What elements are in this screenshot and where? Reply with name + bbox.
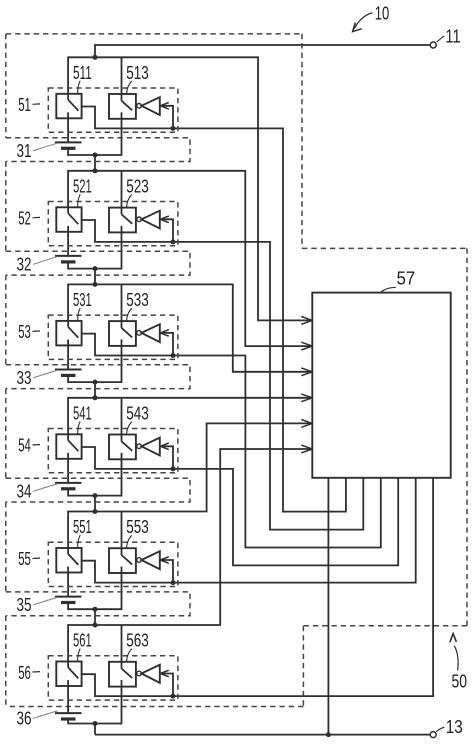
dashed box: battery unit 35 [6,592,190,616]
label 33 with leader [17,367,58,388]
svg-text:32: 32 [17,253,32,274]
dashed box: battery unit 33 [6,365,190,389]
wire: series link battery 33 to next cell top [94,382,96,398]
battery cell 32 [55,232,122,269]
wire: series link battery 32 to next cell top [94,269,96,285]
battery cell 34 [55,459,122,496]
node: junction on battery 36 negative wire [93,721,98,726]
switch 543 (bypass switch, box with blade) [109,435,136,460]
svg-text:511: 511 [73,62,92,83]
svg-text:51: 51 [18,94,31,115]
svg-text:553: 553 [126,516,149,537]
svg-text:561: 561 [73,630,92,651]
node: junction on cell 53 top line [93,282,98,287]
label 53 with leader dash [18,321,40,342]
dashed box: switching unit 53 [48,315,178,359]
wire: series link battery 31 to next cell top [94,155,96,171]
driver inverter bubble at 563 control input [137,671,142,676]
dashed box: switching unit 52 [48,202,178,246]
switch 563 (bypass switch, box with blade) [109,662,136,687]
node: junction on cell 54 top line [93,395,98,400]
dashed box: switching unit 56 [48,656,178,700]
svg-text:55: 55 [18,548,31,569]
dashed box: switching unit 51 [48,88,178,132]
wire: cell 54 control line loop to controller 57 bottom pin [82,447,399,565]
label 50 with curved arrow [450,634,467,692]
label 521 with leader [73,175,92,207]
wire: top node branch into switch 563 [121,625,123,662]
switch 523 (bypass switch, box with blade) [109,208,136,233]
label 31 with leader [17,140,58,161]
wire: bottom negative rail [95,734,430,736]
dashed box: battery unit 34 [6,478,190,502]
label 35 with leader [17,594,58,615]
svg-text:521: 521 [73,175,92,196]
battery cell 33 [55,345,122,382]
wire: top node branch into switch 553 [121,512,123,549]
wire: control feed arrow into driver of 563 [160,670,173,696]
wire: cell 56 control line loop to controller 57 bottom pin [82,478,434,696]
label 55 with leader dash [18,548,40,569]
svg-text:531: 531 [73,289,92,310]
dashed box: switching unit 54 [48,429,178,473]
label 513 with leader [126,62,149,94]
driver inverter bubble at 533 control input [137,331,142,336]
wire: control feed arrow into driver of 543 [160,443,173,469]
switch 531 (series switch, box with blade) [56,321,81,346]
label 34 with leader [17,481,58,502]
svg-text:35: 35 [17,594,32,615]
label 11 with leader tick [437,26,461,47]
label 13 with leader [436,716,462,737]
label 10 with curved arrow [353,2,390,31]
label 561 with leader [73,630,92,662]
label 523 with leader [126,175,149,207]
wire: cell 54 top node to controller input arrow [68,394,312,434]
battery cell 36 [55,686,122,724]
node: junction on cell 55 top line [93,509,98,514]
svg-text:54: 54 [18,435,31,456]
label 32 with leader [17,253,58,274]
switch 513 (bypass switch, box with blade) [109,94,136,119]
node: junction on battery 33 negative wire [93,380,98,385]
label 56 with leader dash [18,662,40,683]
label 533 with leader [126,289,149,321]
label 553 with leader [126,516,149,548]
svg-text:57: 57 [397,267,416,288]
wire: controller common line to bottom rail [327,478,329,735]
switch 521 (series switch, box with blade) [56,207,81,232]
node: junction on cell 52 top line [93,168,98,173]
wire: control feed arrow into driver of 553 [160,557,173,583]
wire: cell 51 control line loop to controller 57 bottom pin [82,107,346,512]
driver triangle (buffer) for switch 563 [141,665,159,683]
svg-text:513: 513 [126,62,149,83]
terminal 11 open circle [430,42,436,48]
svg-text:551: 551 [73,516,92,537]
wire: top node branch into switch 533 [121,284,123,321]
wire: cell 51 top node to controller input arrow [68,57,312,324]
driver inverter bubble at 523 control input [137,217,142,222]
switch 533 (bypass switch, box with blade) [109,321,136,346]
svg-text:52: 52 [18,208,31,229]
wire: cell 55 control line loop to controller 57 bottom pin [82,478,416,583]
driver triangle (buffer) for switch 523 [141,211,159,229]
label 563 with leader [126,630,149,662]
svg-text:34: 34 [17,481,32,502]
label 36 with leader [17,708,58,729]
battery cell 35 [55,573,122,610]
svg-text:541: 541 [73,402,92,423]
driver inverter bubble at 553 control input [137,558,142,563]
wire: series link battery 35 to next cell top [94,609,96,625]
node: junction of driver feed and control line (cell 51) [171,126,176,131]
svg-text:36: 36 [17,708,32,729]
controller box 57 [312,293,450,478]
label 543 with leader [126,402,149,434]
dashed box: switching unit 55 [48,542,178,586]
svg-text:33: 33 [17,367,32,388]
wire: battery 36 negative down to bottom rail [94,724,96,735]
svg-text:10: 10 [375,2,390,23]
driver triangle (buffer) for switch 533 [141,324,159,342]
battery cell 31 [55,118,122,155]
svg-text:543: 543 [126,402,149,423]
node: junction of driver feed and control line (cell 56) [171,694,176,699]
node: junction on battery 31 negative wire [93,153,98,158]
label 551 with leader [73,516,92,548]
svg-text:563: 563 [126,630,149,651]
node: junction of driver feed and control line (cell 52) [171,239,176,244]
label 531 with leader [73,289,92,321]
driver triangle (buffer) for switch 543 [141,438,159,456]
wire: top node branch into switch 523 [121,171,123,208]
svg-text:533: 533 [126,289,149,310]
svg-text:31: 31 [17,140,32,161]
driver triangle (buffer) for switch 513 [141,97,159,115]
node: junction of driver feed and control line (cell 53) [171,353,176,358]
label 541 with leader [73,402,92,434]
wire: cell 53 control line loop to controller 57 bottom pin [82,334,381,548]
node: junction on cell 51 top line [93,55,98,60]
switch 561 (series switch, box with blade) [56,662,81,687]
svg-text:50: 50 [452,671,468,692]
label 54 with leader dash [18,435,40,456]
node: junction of driver feed and control line (cell 54) [171,466,176,471]
wire: control feed arrow into driver of 533 [160,330,173,356]
wire: cell 56 top node to controller input arrow [68,445,312,661]
switch 541 (series switch, box with blade) [56,434,81,459]
label 511 with leader [73,62,92,94]
switch 553 (bypass switch, box with blade) [109,548,136,573]
node: junction of common line on bottom rail [326,732,331,737]
svg-text:11: 11 [445,26,460,47]
label 51 with leader dash [18,94,40,115]
wire: cell 55 top node to controller input arrow [68,420,312,549]
dashed box: battery unit 31 [6,138,190,162]
wire: top node branch into switch 543 [121,398,123,435]
svg-text:53: 53 [18,321,31,342]
driver triangle (buffer) for switch 553 [141,551,159,569]
wire: cell 53 top node to controller input arrow [68,284,312,375]
switch 511 (series switch, box with blade) [56,94,81,119]
node: junction of driver feed and control line (cell 55) [171,580,176,585]
switch 551 (series switch, box with blade) [56,548,81,573]
node: junction on cell 56 top line [93,623,98,628]
wire: positive rail to terminal 11 [95,45,430,57]
driver inverter bubble at 543 control input [137,444,142,449]
node: junction on battery 35 negative wire [93,607,98,612]
svg-text:523: 523 [126,175,149,196]
wire: control feed arrow into driver of 513 [160,103,173,129]
label 57 with leader [381,267,416,292]
svg-text:13: 13 [446,716,463,737]
wire: control feed arrow into driver of 523 [160,216,173,242]
wire: cell 52 top node to controller input arrow [68,171,312,350]
wire: top node branch into switch 513 [121,57,123,94]
wire: cell 52 control line loop to controller 57 bottom pin [82,220,364,530]
node: junction on battery 32 negative wire [93,266,98,271]
terminal 13 open circle [430,732,436,738]
driver inverter bubble at 513 control input [137,104,142,109]
svg-text:56: 56 [18,662,31,683]
node: junction on battery 34 negative wire [93,493,98,498]
dashed box: battery unit 32 [6,251,190,275]
label 52 with leader dash [18,208,40,229]
wire: series link battery 34 to next cell top [94,496,96,512]
